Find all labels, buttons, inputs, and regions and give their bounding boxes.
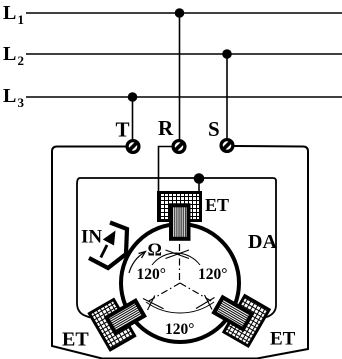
svg-text:L: L (3, 85, 16, 107)
svg-text:L: L (3, 43, 16, 65)
svg-text:L: L (3, 2, 16, 24)
svg-text:R: R (158, 116, 174, 140)
svg-text:S: S (208, 117, 220, 141)
svg-text:IN: IN (81, 227, 102, 248)
svg-text:ET: ET (62, 329, 89, 351)
svg-text:120°: 120° (198, 266, 227, 283)
svg-text:Ω: Ω (148, 240, 162, 260)
svg-text:120°: 120° (165, 321, 194, 338)
svg-text:T: T (116, 118, 130, 142)
svg-text:120°: 120° (137, 266, 166, 283)
svg-text:1: 1 (18, 12, 25, 27)
svg-text:2: 2 (18, 53, 25, 68)
svg-text:DA: DA (248, 231, 277, 253)
svg-text:3: 3 (18, 95, 25, 110)
svg-text:ET: ET (205, 195, 229, 215)
svg-text:ET: ET (270, 329, 296, 350)
